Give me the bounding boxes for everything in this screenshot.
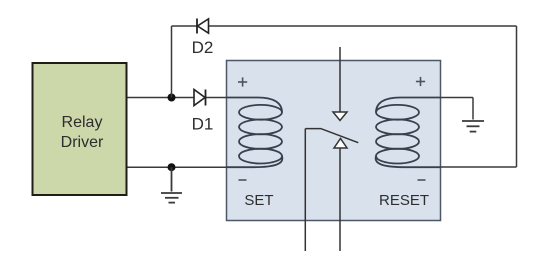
wire: junction up to D2 branch xyxy=(171,26,173,98)
relay body (latching relay block) xyxy=(227,61,441,221)
set actuation arrow (down) xyxy=(333,47,347,121)
node: junction lower xyxy=(168,163,176,171)
reset actuation arrow (up) xyxy=(334,139,347,252)
relay driver block U1 xyxy=(33,63,127,195)
label + (RESET coil) xyxy=(416,77,425,86)
wire: driver output to D1 anode (upper) xyxy=(128,97,195,99)
svg-text:D2: D2 xyxy=(192,38,214,57)
label - (RESET coil) xyxy=(418,179,426,181)
coil L1 SET xyxy=(227,98,282,168)
ground (right) xyxy=(462,121,484,132)
switch common leg xyxy=(304,129,306,251)
wire: into RESET coil bottom xyxy=(441,166,517,168)
wire: RESET coil top to ground stub xyxy=(441,97,474,99)
wire: D1 cathode to relay box xyxy=(206,97,228,99)
wire: driver return (lower) xyxy=(128,166,228,168)
switch blade xyxy=(305,129,358,143)
svg-text:Driver: Driver xyxy=(61,134,104,151)
wire: D2 to top right corner xyxy=(209,25,517,27)
diode D2 xyxy=(192,19,214,58)
wire: ground stub vertical xyxy=(472,98,474,120)
diode D1 xyxy=(192,90,214,134)
label + (SET coil) xyxy=(238,77,247,86)
coil L2 RESET xyxy=(376,98,441,168)
svg-text:D1: D1 xyxy=(192,115,214,134)
svg-text:Relay: Relay xyxy=(62,114,103,131)
svg-text:SET: SET xyxy=(244,192,273,209)
wire: top run to D2 anode side xyxy=(172,25,198,27)
ground (left) xyxy=(161,167,182,202)
node: junction upper xyxy=(168,94,176,102)
svg-text:RESET: RESET xyxy=(379,192,429,209)
label - (SET coil) xyxy=(239,179,247,181)
wire: right vertical drop xyxy=(516,26,518,167)
